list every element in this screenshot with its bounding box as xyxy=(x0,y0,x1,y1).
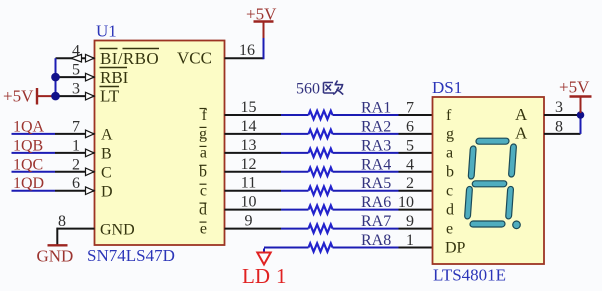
svg-text:VCC: VCC xyxy=(177,49,212,68)
IC U1 body xyxy=(95,41,225,246)
resistor RA8 (560 ohm) xyxy=(309,243,333,251)
svg-text:g: g xyxy=(446,126,454,143)
U1 pin 2 xyxy=(55,171,95,173)
U1 pin 4 (BI/RBO) xyxy=(56,57,95,59)
wire to resistor RA2 xyxy=(281,133,309,135)
wire LD1 riser xyxy=(263,249,265,253)
svg-text:2: 2 xyxy=(406,175,414,192)
svg-text:GND: GND xyxy=(100,221,135,238)
wire resistor to DS1 xyxy=(333,171,399,173)
U1 pin 14 xyxy=(225,133,282,135)
DS1 pin 2 xyxy=(399,190,433,192)
svg-text:D: D xyxy=(101,184,113,201)
svg-text:A: A xyxy=(515,105,528,124)
resistor RA1 (560 ohm) xyxy=(309,111,333,119)
wire anode riser xyxy=(580,115,582,134)
svg-text:B: B xyxy=(101,146,112,163)
svg-text:e: e xyxy=(446,220,453,237)
svg-text:8: 8 xyxy=(58,213,66,230)
svg-text:14: 14 xyxy=(241,118,257,135)
resistor RA7 (560 ohm) xyxy=(309,224,333,232)
power +5V (right) xyxy=(580,98,582,114)
svg-text:4: 4 xyxy=(72,43,80,60)
junction anode xyxy=(577,111,585,119)
wire net 1QC xyxy=(12,171,56,173)
svg-text:11: 11 xyxy=(241,175,256,192)
svg-text:9: 9 xyxy=(406,213,414,230)
svg-text:8: 8 xyxy=(555,118,563,135)
svg-text:d: d xyxy=(199,201,207,218)
svg-text:f: f xyxy=(202,107,208,124)
7seg segment e (lower left) xyxy=(464,186,472,219)
svg-text:3: 3 xyxy=(555,99,563,116)
wire to resistor RA6 xyxy=(281,209,309,211)
wire VCC riser xyxy=(263,38,265,59)
U1 pin 6 xyxy=(55,190,95,192)
7seg segment a (top) xyxy=(476,138,509,144)
svg-text:RA3: RA3 xyxy=(361,137,391,154)
svg-text:13: 13 xyxy=(241,137,257,154)
svg-text:+5V: +5V xyxy=(559,78,590,97)
wire riser pins 4-5-3 xyxy=(55,58,57,96)
svg-text:1QB: 1QB xyxy=(13,137,43,154)
wire resistor to DS1 xyxy=(333,247,399,249)
junction at pin 3 xyxy=(51,92,60,101)
svg-text:5: 5 xyxy=(406,137,414,154)
svg-text:b: b xyxy=(446,164,454,181)
U1 pin 10 xyxy=(225,209,282,211)
7seg segment d (bottom) xyxy=(470,221,505,227)
wire resistor to DS1 xyxy=(333,152,399,154)
svg-text:a: a xyxy=(200,145,207,162)
wire to resistor RA4 xyxy=(281,171,309,173)
U1 pin 13 xyxy=(225,152,282,154)
wire resistor to DS1 xyxy=(333,133,399,135)
wire net 1QB xyxy=(12,152,56,154)
resistor RA3 (560 ohm) xyxy=(309,149,333,157)
svg-text:A: A xyxy=(515,124,528,143)
svg-text:A: A xyxy=(101,127,113,144)
wire resistor to DS1 xyxy=(333,190,399,192)
svg-text:RA2: RA2 xyxy=(361,118,391,135)
wire to ground xyxy=(56,228,58,245)
svg-text:7: 7 xyxy=(72,118,80,135)
svg-text:DS1: DS1 xyxy=(432,78,462,97)
wire LD1 to resistor RA8 xyxy=(264,247,309,249)
U1 pin 15 xyxy=(225,114,282,116)
7seg segment c (lower right) xyxy=(506,186,514,219)
svg-text:560: 560 xyxy=(296,81,320,98)
svg-text:DP: DP xyxy=(445,239,466,256)
U1 pin 12 xyxy=(225,171,282,173)
DS1 pin 1 xyxy=(399,247,433,249)
port LD 1 arrow xyxy=(257,253,270,265)
svg-text:RBI: RBI xyxy=(100,68,129,87)
wire to resistor RA5 xyxy=(281,190,309,192)
DS1 pin 5 xyxy=(399,152,433,154)
svg-text:LTS4801E: LTS4801E xyxy=(433,266,506,285)
svg-text:U1: U1 xyxy=(96,22,117,41)
wire to resistor RA7 xyxy=(281,228,309,230)
DS1 pin 3 xyxy=(544,114,581,116)
svg-text:5: 5 xyxy=(72,62,80,79)
svg-text:+5V: +5V xyxy=(3,87,34,106)
DS1 pin 10 xyxy=(399,209,433,211)
svg-text:d: d xyxy=(446,201,454,218)
7seg segment f (upper left) xyxy=(468,146,476,179)
svg-text:15: 15 xyxy=(241,99,257,116)
DS1 pin 7 xyxy=(399,114,433,116)
svg-text:16: 16 xyxy=(239,42,255,59)
svg-text:1: 1 xyxy=(276,264,287,286)
power +5V (left) xyxy=(36,88,38,105)
7seg segment g (middle) xyxy=(472,181,507,187)
svg-text:c: c xyxy=(200,183,207,200)
U1 pin 3 (LT) xyxy=(56,95,95,97)
wire to resistor RA3 xyxy=(281,152,309,154)
U1 pin 8 (GND) xyxy=(57,228,94,230)
U1 pin 11 xyxy=(225,190,282,192)
display DS1 body xyxy=(433,97,545,264)
svg-text:RA8: RA8 xyxy=(361,232,391,249)
resistor RA2 (560 ohm) xyxy=(309,130,333,138)
svg-text:BI/RBO: BI/RBO xyxy=(100,49,159,68)
U1 pin 16 (VCC) xyxy=(225,57,264,59)
wire net 1QD xyxy=(12,190,56,192)
U1 pin 5 (RBI) xyxy=(56,76,95,78)
svg-text:6: 6 xyxy=(406,118,414,135)
U1 pin 9 xyxy=(225,228,282,230)
svg-text:C: C xyxy=(101,165,112,182)
svg-text:1QC: 1QC xyxy=(13,156,43,173)
svg-text:LD: LD xyxy=(242,264,270,286)
svg-text:RA6: RA6 xyxy=(361,194,391,211)
wire net 1QA xyxy=(12,133,56,135)
U1 pin 7 xyxy=(55,133,95,135)
svg-text:f: f xyxy=(446,107,452,124)
svg-text:g: g xyxy=(199,126,207,143)
resistor RA6 (560 ohm) xyxy=(309,205,333,213)
7seg segment b (upper right) xyxy=(508,144,516,177)
svg-text:c: c xyxy=(446,183,453,200)
DS1 pin 6 xyxy=(399,133,433,135)
junction at pin 5 xyxy=(51,73,60,82)
DS1 pin 8 xyxy=(544,133,581,135)
svg-text:2: 2 xyxy=(72,156,80,173)
svg-text:GND: GND xyxy=(37,247,74,266)
svg-text:10: 10 xyxy=(398,194,414,211)
svg-text:3: 3 xyxy=(72,81,80,98)
DS1 pin 4 xyxy=(399,171,433,173)
7seg decimal point xyxy=(513,221,521,229)
svg-text:1: 1 xyxy=(406,232,414,249)
svg-text:LT: LT xyxy=(100,87,120,106)
wire resistor to DS1 xyxy=(333,209,399,211)
svg-text:12: 12 xyxy=(241,156,257,173)
svg-text:7: 7 xyxy=(406,100,414,117)
wire to resistor RA1 xyxy=(281,114,309,116)
DS1 pin 9 xyxy=(399,228,433,230)
svg-text:a: a xyxy=(446,145,453,162)
ground GND symbol xyxy=(48,244,68,246)
resistor RA4 (560 ohm) xyxy=(309,168,333,176)
svg-text:SN74LS47D: SN74LS47D xyxy=(87,246,175,265)
svg-text:6: 6 xyxy=(72,175,80,192)
svg-text:e: e xyxy=(200,220,207,237)
U1 pin 1 xyxy=(55,152,95,154)
svg-text:10: 10 xyxy=(241,194,257,211)
svg-text:1QA: 1QA xyxy=(13,118,45,135)
svg-text:1: 1 xyxy=(72,137,80,154)
svg-text:RA7: RA7 xyxy=(361,213,391,230)
svg-text:+5V: +5V xyxy=(246,5,277,24)
svg-text:b: b xyxy=(199,164,207,181)
resistor RA5 (560 ohm) xyxy=(309,187,333,195)
svg-text:RA4: RA4 xyxy=(361,156,391,173)
svg-text:RA1: RA1 xyxy=(361,100,391,117)
value label CJK "ohm" glyph xyxy=(324,81,344,95)
wire resistor to DS1 xyxy=(333,228,399,230)
wire resistor to DS1 xyxy=(333,114,399,116)
svg-text:1QD: 1QD xyxy=(13,175,44,192)
svg-text:RA5: RA5 xyxy=(361,175,391,192)
power +5V (top center) xyxy=(263,23,265,39)
svg-text:4: 4 xyxy=(406,156,414,173)
svg-text:9: 9 xyxy=(245,213,253,230)
